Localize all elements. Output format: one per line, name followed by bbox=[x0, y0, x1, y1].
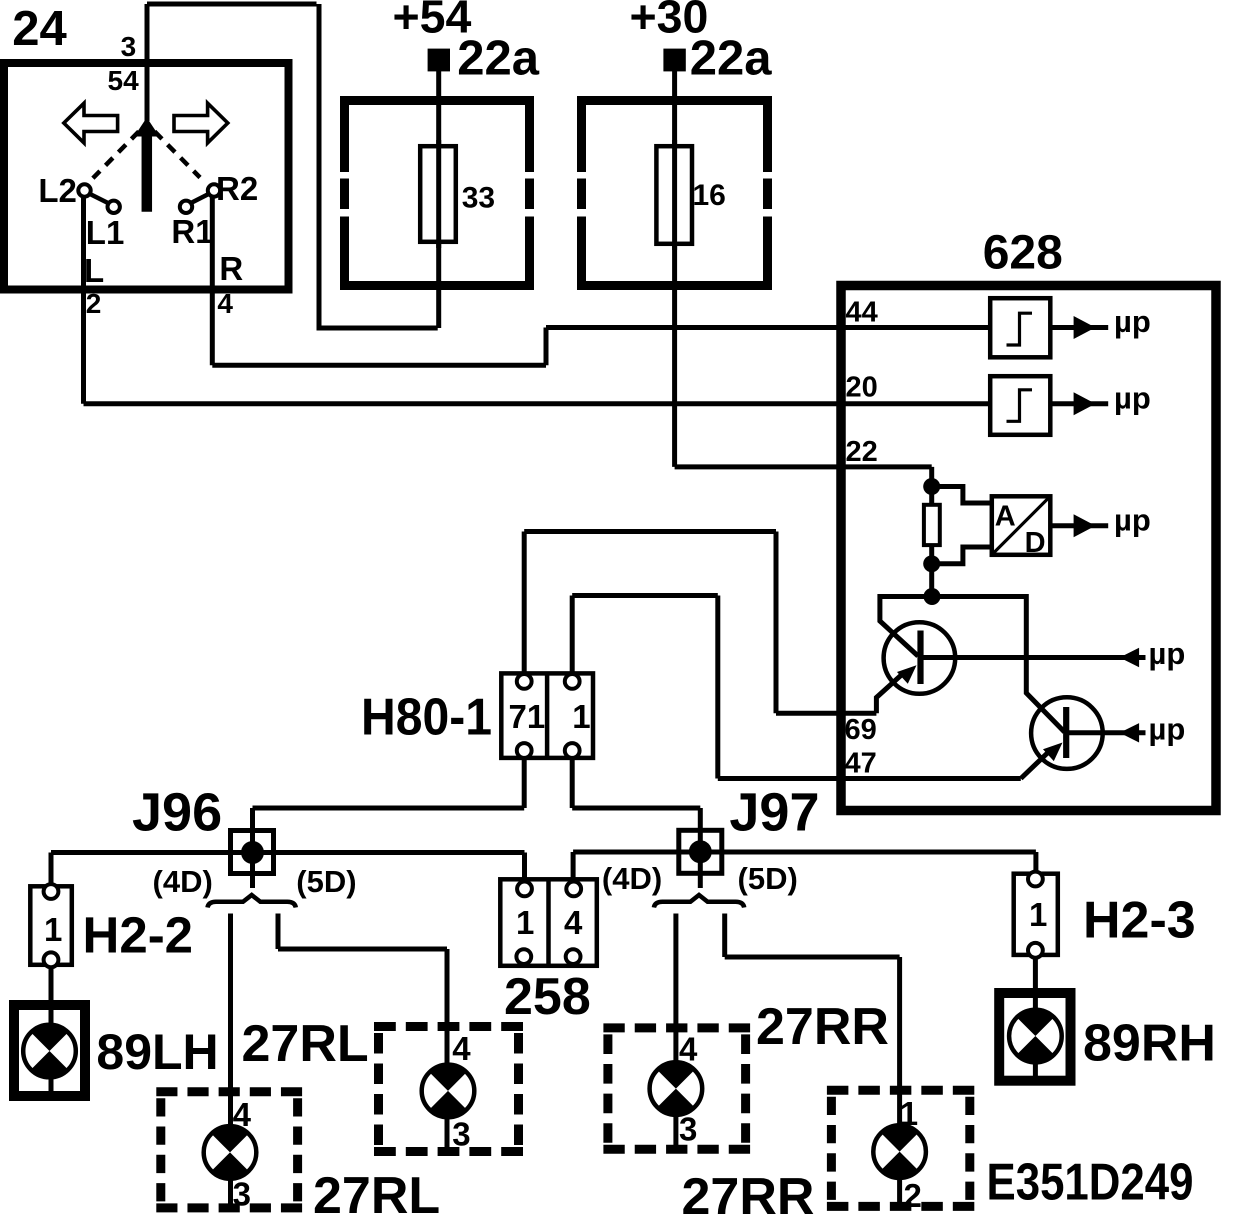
wire A/D input bracket top bbox=[932, 487, 990, 504]
right direction arrow (hollow) bbox=[174, 103, 228, 143]
svg-text:3: 3 bbox=[679, 1111, 697, 1148]
wire H80-1 pin1 top to 628 pin 47 bbox=[572, 596, 1021, 779]
brace under J97 bbox=[654, 895, 744, 908]
connector H80-1 bbox=[501, 673, 593, 758]
connector H2-2 bbox=[30, 886, 72, 965]
Q2 emitter arrow bbox=[1043, 743, 1063, 762]
contact R1 bbox=[180, 201, 192, 213]
wire switch pin 2 to 628 pin 20 bbox=[84, 197, 990, 404]
A/D converter U-AD bbox=[992, 496, 1051, 555]
Q1 emitter arrow bbox=[897, 665, 917, 684]
svg-text:L2: L2 bbox=[38, 172, 77, 209]
svg-text:54: 54 bbox=[108, 65, 140, 96]
svg-text:1: 1 bbox=[516, 904, 534, 941]
junction J96 bbox=[231, 831, 274, 874]
svg-text:µp: µp bbox=[1149, 712, 1186, 747]
svg-text:R1: R1 bbox=[171, 213, 213, 250]
connector H2-3 bbox=[1014, 874, 1058, 955]
wire 628 internal: pin22 node down through resistor chain bbox=[929, 467, 934, 597]
control unit box 628 bbox=[841, 286, 1216, 811]
svg-text:16: 16 bbox=[693, 179, 726, 212]
wire J97 net: 258 pin 4 / J97 dot / H2-3 bbox=[573, 852, 1036, 881]
wire +54 feed: fuse 33 down, left, up over top, down into switch pin 3/54 bbox=[147, 4, 439, 331]
svg-text:L: L bbox=[84, 252, 104, 289]
turn signal switch box 24 bbox=[4, 63, 289, 290]
svg-text:µp: µp bbox=[1114, 502, 1151, 537]
connector 258 bbox=[500, 879, 597, 966]
wire J96 (5D) branch to lamp 27RL upper bbox=[278, 914, 447, 1153]
fuse holder box 22a (+54 side) bbox=[340, 96, 534, 105]
fuse holder box 22a (+30 side) bbox=[577, 96, 772, 105]
left direction arrow (hollow) bbox=[64, 103, 118, 143]
lamp box 89RH bbox=[999, 993, 1070, 1081]
dashed throw to L2 bbox=[93, 132, 139, 179]
resistor bbox=[924, 505, 940, 545]
svg-text:2: 2 bbox=[86, 288, 102, 319]
svg-text:69: 69 bbox=[845, 714, 877, 746]
svg-text:(4D): (4D) bbox=[602, 861, 662, 896]
svg-text:A: A bbox=[995, 501, 1016, 533]
svg-text:4: 4 bbox=[564, 904, 583, 941]
lamp 89LH bbox=[23, 1025, 76, 1078]
svg-text:E351D249: E351D249 bbox=[987, 1154, 1194, 1212]
svg-text:20: 20 bbox=[846, 372, 878, 404]
wire stub J96 to brace bbox=[250, 862, 255, 888]
svg-text:4: 4 bbox=[679, 1031, 698, 1068]
dashed lamp box 27RR lower bbox=[827, 1086, 974, 1095]
svg-text:(5D): (5D) bbox=[296, 864, 356, 899]
wire switch pin 4 to 628 pin 44 bbox=[212, 197, 988, 365]
svg-text:1: 1 bbox=[572, 698, 590, 735]
svg-text:H2-3: H2-3 bbox=[1083, 892, 1196, 950]
svg-text:89LH: 89LH bbox=[96, 1024, 218, 1080]
transistor Q2 bbox=[1031, 697, 1103, 769]
svg-text:(4D): (4D) bbox=[153, 864, 213, 899]
transistor Q1 bbox=[884, 622, 956, 694]
svg-text:24: 24 bbox=[12, 2, 67, 56]
switch lever (thick bar with up arrow) bbox=[142, 134, 153, 212]
svg-text:J97: J97 bbox=[729, 783, 819, 843]
wire T1 base lead to microprocessor bbox=[921, 655, 1146, 660]
arrow to up (row 44) bbox=[1074, 316, 1096, 339]
dashed lamp box 27RL rear bbox=[156, 1087, 302, 1096]
svg-text:258: 258 bbox=[504, 968, 591, 1026]
wire A/D output to microprocessor bbox=[1053, 523, 1109, 528]
svg-text:22: 22 bbox=[846, 436, 878, 468]
arrow from up (Q1 row) bbox=[1120, 648, 1140, 667]
contact bridge L2-L1 bbox=[86, 192, 112, 205]
svg-text:µp: µp bbox=[1114, 304, 1151, 339]
wire stub J97 to brace bbox=[698, 862, 703, 888]
step detector block (row 44) bbox=[990, 298, 1050, 357]
svg-text:4: 4 bbox=[233, 1096, 252, 1133]
wire H80-1 pin71 bottom to junction J96 bbox=[253, 758, 525, 853]
svg-text:H80-1: H80-1 bbox=[361, 689, 492, 747]
fuse 16 element bbox=[656, 146, 692, 244]
terminal square +30 bbox=[663, 49, 685, 72]
wire A/D input bracket bottom bbox=[932, 547, 990, 564]
arrow to up (A/D row) bbox=[1074, 514, 1096, 537]
lamp 27RL rear bbox=[204, 1126, 257, 1179]
wire through fuse 33 bbox=[436, 140, 441, 248]
H80-1 pin circles bbox=[517, 674, 532, 689]
svg-text:3: 3 bbox=[452, 1116, 470, 1153]
arrow from up (Q2 row) bbox=[1120, 723, 1140, 742]
junction node 1 (pin 22 / resistor top) bbox=[923, 478, 940, 495]
svg-text:27RR: 27RR bbox=[682, 1168, 815, 1226]
lamp box 89LH bbox=[14, 1005, 85, 1096]
svg-text:3: 3 bbox=[121, 31, 137, 62]
svg-text:R2: R2 bbox=[216, 170, 258, 207]
lamp 89RH bbox=[1009, 1010, 1062, 1063]
wire +30 feed: fuse 16 down to 628 pin 22 bbox=[675, 71, 932, 467]
dashed throw to R2 bbox=[155, 132, 200, 178]
wire H80-1 pin71 top to 628 pin 69 bbox=[524, 532, 876, 714]
contact bridge R2-R1 bbox=[187, 192, 213, 205]
svg-text:71: 71 bbox=[509, 698, 546, 735]
arrow to up (row 20) bbox=[1074, 392, 1096, 415]
svg-text:89RH: 89RH bbox=[1083, 1015, 1216, 1073]
wire J96 net: H2-2 / J96 dot / 258 pin 1 bbox=[51, 853, 525, 891]
wire transistor collector bracket from node to T1 and T2 bbox=[880, 597, 1065, 733]
contact L1 bbox=[108, 201, 120, 213]
contact L2 bbox=[78, 184, 90, 196]
terminal square +54 bbox=[428, 49, 450, 72]
fuse 33 element bbox=[420, 146, 456, 242]
svg-text:R: R bbox=[219, 250, 243, 287]
wire 628 row 20 output to microprocessor bbox=[1053, 401, 1109, 406]
svg-text:4: 4 bbox=[452, 1030, 471, 1067]
svg-text:µp: µp bbox=[1114, 380, 1151, 415]
wire 628 row 44 output to microprocessor bbox=[1053, 325, 1109, 330]
lamp 27RR middle bbox=[650, 1062, 703, 1115]
svg-text:3: 3 bbox=[233, 1176, 251, 1213]
brace under J96 bbox=[208, 895, 296, 908]
svg-text:4: 4 bbox=[217, 288, 233, 319]
wire T2 base lead to microprocessor bbox=[1067, 730, 1146, 735]
svg-text:27RR: 27RR bbox=[756, 998, 889, 1056]
wire H2-2 pin1 down to lamp 89LH bbox=[49, 965, 54, 1096]
svg-text:1: 1 bbox=[44, 911, 62, 948]
svg-text:µp: µp bbox=[1149, 636, 1186, 671]
junction J97 bbox=[679, 830, 722, 873]
dashed lamp box 27RL upper bbox=[374, 1022, 523, 1031]
wire J97 (5D) branch to lamp 27RR lower right bbox=[725, 914, 900, 1208]
svg-text:D: D bbox=[1025, 527, 1046, 559]
lamp 27RR lower bbox=[873, 1125, 926, 1178]
svg-text:27RL: 27RL bbox=[242, 1015, 369, 1073]
svg-text:47: 47 bbox=[845, 748, 877, 780]
svg-text:(5D): (5D) bbox=[738, 861, 798, 896]
svg-text:22a: 22a bbox=[690, 32, 773, 86]
wire through fuse 16 bbox=[672, 140, 677, 250]
wire H2-3 pin1 down to lamp 89RH bbox=[1033, 955, 1038, 1081]
wire J96 (4D) branch down to lamp 27RL rear bbox=[228, 914, 233, 1209]
svg-text:J96: J96 bbox=[132, 783, 222, 843]
svg-text:22a: 22a bbox=[457, 32, 540, 86]
svg-text:628: 628 bbox=[983, 227, 1063, 280]
junction node 3 (transistor feed) bbox=[924, 588, 941, 605]
svg-text:27RL: 27RL bbox=[313, 1167, 440, 1225]
svg-text:L1: L1 bbox=[86, 214, 125, 251]
wire T2 emitter from pin 47 bbox=[1021, 752, 1049, 779]
svg-text:44: 44 bbox=[846, 297, 878, 329]
junction node 2 (resistor bottom) bbox=[923, 555, 940, 572]
svg-text:H2-2: H2-2 bbox=[83, 907, 194, 964]
contact R2 bbox=[208, 184, 220, 196]
svg-text:2: 2 bbox=[904, 1177, 922, 1214]
wire T1 emitter from pin 69 bbox=[876, 674, 903, 714]
dashed lamp box 27RR middle bbox=[603, 1023, 750, 1032]
lamp 27RL upper bbox=[422, 1065, 475, 1118]
wire H80-1 pin1 bottom to junction J97 bbox=[572, 758, 700, 852]
wire J97 (4D) branch down to lamp 27RR middle bbox=[673, 914, 678, 1151]
svg-text:1: 1 bbox=[1029, 896, 1047, 933]
svg-text:33: 33 bbox=[462, 182, 495, 215]
svg-text:1: 1 bbox=[900, 1095, 918, 1132]
step detector block (row 20) bbox=[990, 376, 1050, 435]
